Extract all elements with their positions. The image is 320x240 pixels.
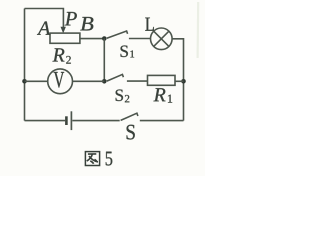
node: junction on right vertical at R1 row xyxy=(181,79,186,84)
wire: switch S2 contact to R1 xyxy=(127,80,148,82)
wire: rheostat terminal B to middle node xyxy=(80,38,104,40)
caption hanzi TU (figure) xyxy=(85,152,99,166)
label R2 xyxy=(52,48,64,61)
node: T junction of voltmeter row and middle branch xyxy=(102,79,107,84)
lamp L circle xyxy=(151,28,173,50)
wire: top side and drop to slider P xyxy=(25,9,64,29)
switch S2 blade xyxy=(107,74,124,81)
node: junction on left vertical at voltmeter row xyxy=(22,79,27,84)
voltmeter circle xyxy=(48,69,73,94)
switch S blade xyxy=(121,113,138,120)
label P xyxy=(65,12,77,25)
wire: bottom run from left vertical to battery xyxy=(25,120,66,122)
wire: left node to voltmeter xyxy=(25,80,48,82)
voltmeter letter V xyxy=(54,72,64,88)
label R1 xyxy=(153,88,165,101)
battery short plate (negative) xyxy=(65,116,68,125)
label S1 xyxy=(121,46,128,58)
wire: lamp to right side, down right vertical xyxy=(172,39,183,121)
scan artifact: faint streak right edge xyxy=(197,2,200,58)
rheostat R2 body xyxy=(50,33,80,43)
wire: R1 to right vertical node xyxy=(175,80,184,82)
label B xyxy=(80,17,93,30)
label A xyxy=(37,21,50,34)
battery long plate (positive) xyxy=(70,111,72,130)
switch S1 blade xyxy=(107,31,128,38)
label S2 xyxy=(116,90,123,102)
wire: battery to switch S xyxy=(72,120,119,122)
wire: left vertical side xyxy=(24,9,26,121)
label S xyxy=(127,125,135,140)
wire: switch S contact to right vertical xyxy=(140,120,184,122)
wire: switch S1 contact to lamp xyxy=(129,38,151,40)
label L xyxy=(145,18,154,31)
lamp L cross stroke 2 xyxy=(154,31,169,46)
caption number 5 xyxy=(106,152,113,166)
resistor R1 body xyxy=(148,75,176,85)
lamp L cross stroke 1 xyxy=(154,31,169,46)
rheostat R2 slider arrowhead xyxy=(61,27,66,34)
wire: voltmeter to T node xyxy=(73,80,105,82)
wire: middle vertical between the two branch nodes xyxy=(103,39,105,82)
node: junction at top of middle branch xyxy=(102,36,107,41)
